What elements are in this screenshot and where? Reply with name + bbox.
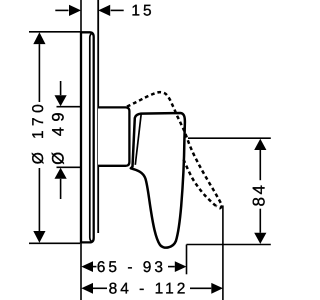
svg-text:65 - 93: 65 - 93 xyxy=(97,259,166,276)
dia170 top extension line xyxy=(29,31,80,33)
svg-text:15: 15 xyxy=(131,3,154,20)
dia49 upper arrow xyxy=(55,95,67,106)
dim 15 right tail xyxy=(111,9,124,11)
dim 15 left tail xyxy=(55,9,68,11)
dia170 bottom arrow xyxy=(33,231,45,243)
15 extension line (sleeve front plane) xyxy=(97,0,99,233)
dia49 lower arrow xyxy=(55,168,67,179)
dia49 upper extension line xyxy=(57,106,81,108)
wall line xyxy=(80,0,82,300)
handle lever solid outline xyxy=(131,113,185,248)
svg-text:84 - 112: 84 - 112 xyxy=(109,281,189,298)
sleeve (49 mm collar) xyxy=(98,107,129,165)
dim 84 dim line lower segment xyxy=(259,209,261,233)
svg-text:84: 84 xyxy=(249,182,268,206)
dim 15 right arrow xyxy=(98,5,110,16)
handle neck contour xyxy=(135,114,141,165)
dia170 top arrow xyxy=(33,32,45,44)
dia170 dim line lower segment xyxy=(38,168,40,231)
dim 84-112 right arrow xyxy=(211,283,223,294)
dia170 dim line upper segment xyxy=(38,44,40,102)
dia49 lower extension line xyxy=(57,166,81,168)
dia49 lower dim line xyxy=(60,179,62,199)
dim 84 down arrow xyxy=(254,233,266,244)
dia49 upper dim line xyxy=(60,81,62,95)
svg-text:Ø 49: Ø 49 xyxy=(50,107,68,165)
dim 84 up arrow xyxy=(254,139,266,150)
dim 65-93 left arrow xyxy=(81,261,93,272)
dim 84 dim line xyxy=(259,150,261,180)
dim 65-93 right tail xyxy=(168,266,175,268)
extension line from solid lever tip xyxy=(186,245,188,275)
dim 15 left arrow xyxy=(69,5,81,16)
dim 65-93 right arrow xyxy=(175,261,187,272)
svg-text:Ø 170: Ø 170 xyxy=(30,100,47,164)
dim 84 top reference line xyxy=(188,137,271,139)
dashed raised-handle inner edge xyxy=(184,160,217,207)
dim 84-112 left arrow xyxy=(81,283,93,294)
plate rim contour line xyxy=(90,34,92,242)
extension line from dashed lever tip xyxy=(222,206,224,300)
escutcheon plate side view xyxy=(81,32,94,242)
dim 65-93 left tail xyxy=(93,266,97,268)
dashed raised-handle outer silhouette arc xyxy=(127,92,222,206)
dim 84-112 right tail xyxy=(190,287,211,289)
dim 84-112 left tail xyxy=(93,287,107,289)
dashed raised-handle tip xyxy=(216,206,222,208)
dia170 bottom extension line xyxy=(29,242,80,244)
dim 84 bottom reference line xyxy=(187,244,271,246)
